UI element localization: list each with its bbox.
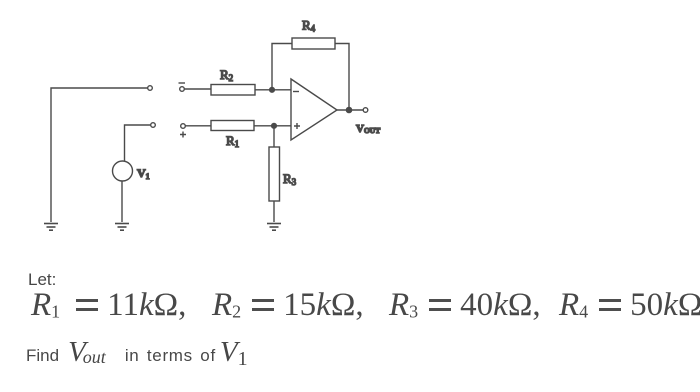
svg-text:R2: R2 [220, 67, 233, 83]
svg-text:R3: R3 [283, 171, 297, 187]
svg-text:R4: R4 [302, 18, 316, 34]
svg-text:VOUT: VOUT [356, 123, 380, 135]
svg-text:R1: R1 [226, 133, 239, 149]
svg-text:V1: V1 [137, 166, 150, 181]
